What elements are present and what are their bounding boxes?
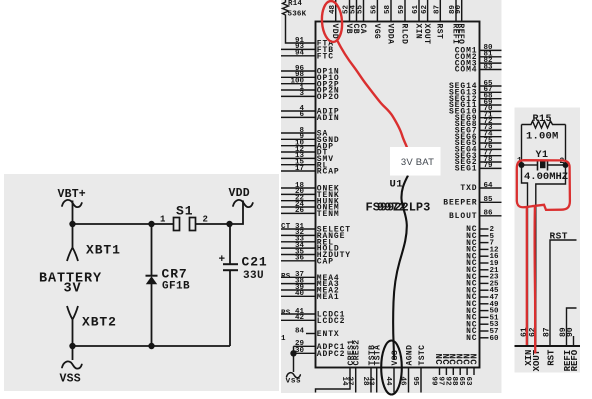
svg-text:VDDA: VDDA [385, 24, 394, 45]
wire from R14 to pin 91 FTA [286, 17, 316, 44]
pin 35 HZDUTY [281, 248, 351, 260]
pin 87 RST (top edge) [434, 0, 444, 39]
svg-text:XOUT: XOUT [532, 349, 542, 371]
power port VBT+ [58, 188, 86, 207]
pin 50 NC (right edge) [466, 307, 499, 316]
pin 84 ENTX [295, 327, 340, 339]
svg-text:3V: 3V [64, 282, 82, 297]
center schematic fragment background [281, 0, 502, 393]
pin 14 CRES1 (bottom edge) [316, 339, 357, 392]
pin 53 NC (right edge) [466, 320, 499, 329]
pin 88 NC (bottom edge) [450, 354, 463, 387]
crystal schematic fragment background [515, 108, 581, 373]
svg-text:59: 59 [398, 4, 406, 14]
svg-text:VSS: VSS [60, 373, 81, 386]
svg-text:ADIN: ADIN [317, 114, 340, 123]
pin 70 SEG10 (right edge) [449, 105, 502, 116]
RST net label and wire [550, 231, 577, 346]
svg-text:26: 26 [295, 207, 305, 215]
pin 33 REL [281, 236, 334, 248]
power port VSS [60, 346, 82, 386]
svg-text:SEG1: SEG1 [455, 165, 478, 174]
svg-text:RST: RST [546, 349, 556, 366]
svg-text:REFO: REFO [570, 349, 580, 371]
power port VDD [229, 187, 253, 224]
pin 58 VDDA (top edge) [384, 0, 394, 44]
pin 43 TSTA (bottom edge) [367, 345, 383, 393]
svg-text:48: 48 [329, 4, 337, 14]
resistor R14 536K (partially cut at top) [283, 0, 307, 19]
svg-text:61: 61 [412, 4, 420, 14]
resistor R15 1.00M [522, 114, 566, 143]
battery schematic fragment background [4, 174, 279, 391]
pin 65 NC (bottom edge) [457, 354, 470, 387]
svg-text:97: 97 [436, 377, 444, 386]
pin 56 VGG (top edge) [371, 0, 381, 39]
svg-text:R14: R14 [288, 0, 302, 8]
svg-text:88: 88 [450, 377, 458, 387]
junction node B (diode top) [148, 221, 154, 227]
svg-text:VBT+: VBT+ [58, 188, 86, 201]
pin 17 RCAP [281, 165, 340, 177]
svg-text:TXD: TXD [460, 184, 477, 193]
svg-text:XIN: XIN [413, 24, 422, 40]
pin 26 TENM [281, 207, 340, 219]
svg-text:XOUT: XOUT [422, 24, 431, 45]
pin 93 FTB [281, 43, 334, 55]
pin 75 SEG5 (right edge) [455, 137, 502, 148]
svg-text:95: 95 [411, 377, 419, 387]
svg-text:VGG: VGG [372, 24, 381, 40]
pin 80 COM1 (right edge) [455, 44, 502, 55]
pin 18 ONEK [281, 182, 340, 194]
svg-text:TSTC: TSTC [418, 345, 427, 366]
connector XBT2 [67, 306, 117, 346]
svg-text:RST: RST [435, 24, 444, 40]
svg-text:17: 17 [295, 165, 304, 173]
svg-text:U1: U1 [390, 179, 404, 191]
svg-text:6: 6 [299, 111, 304, 119]
svg-text:87: 87 [434, 5, 442, 14]
pin 52 VB (top edge) [343, 0, 353, 34]
pin 79 SEG1 (right edge) [455, 162, 502, 173]
pin 83 COM4 (right edge) [455, 63, 502, 74]
pin 92 NC (bottom edge) [443, 354, 456, 387]
junction node E [148, 343, 154, 349]
bottom wire VSS rail [73, 345, 231, 347]
svg-text:LCDC2: LCDC2 [317, 317, 346, 326]
pin 87 RST (right fragment) [543, 327, 557, 366]
pin 100 OP2P [281, 78, 340, 90]
svg-text:90: 90 [566, 327, 575, 337]
svg-text:NC: NC [466, 334, 477, 343]
pin 65 SEG14 (right edge) [449, 80, 502, 91]
svg-text:1: 1 [160, 215, 166, 225]
pin 49 NC (right edge) [466, 300, 499, 309]
pin 12 DT [281, 146, 328, 158]
svg-text:65: 65 [457, 377, 465, 387]
svg-text:55: 55 [357, 4, 365, 14]
pin 5 NC (right edge) [466, 232, 494, 241]
pin 82 COM3 (right edge) [455, 57, 502, 68]
pin 24 ONEM [281, 201, 340, 213]
svg-text:S1: S1 [176, 204, 193, 219]
svg-text:VSS: VSS [391, 350, 400, 366]
pin 77 SEG3 (right edge) [455, 150, 502, 161]
svg-text:56: 56 [371, 4, 379, 14]
svg-text:VDD: VDD [330, 24, 339, 40]
pin 28 TSTB (bottom edge) [361, 345, 377, 393]
svg-text:RLCD: RLCD [399, 24, 408, 45]
pin 67 SEG13 (right edge) [449, 86, 502, 97]
diode CR7 GF1B [146, 224, 191, 346]
svg-text:99: 99 [430, 377, 438, 387]
svg-text:33U: 33U [243, 270, 264, 282]
svg-text:C21: C21 [242, 255, 268, 270]
pin 68 SEG12 (right edge) [449, 93, 502, 104]
red wire trace XOUT [533, 207, 536, 354]
svg-text:CRES2: CRES2 [353, 339, 362, 365]
pin 98 OP1O [281, 71, 340, 83]
svg-text:44: 44 [384, 377, 392, 387]
pin 25 NC (right edge) [466, 280, 499, 289]
svg-text:43: 43 [367, 377, 375, 387]
svg-text:64: 64 [484, 182, 494, 190]
svg-text:3V BAT: 3V BAT [401, 157, 434, 168]
wire crystal pin1 to XIN [522, 165, 528, 346]
pin 23 NC (right edge) [466, 273, 499, 282]
wire crystal pin2 to XOUT [536, 165, 566, 346]
pin 96 OP1N [281, 65, 340, 77]
BATTERY 3V label [39, 272, 102, 297]
svg-text:27: 27 [346, 377, 354, 386]
junction node D [69, 343, 75, 349]
svg-text:84: 84 [295, 327, 305, 335]
junction node 1 [519, 162, 525, 168]
red loop around crystal [517, 160, 570, 210]
pin 60 NC (right edge) [466, 334, 499, 343]
svg-text:REFO: REFO [456, 24, 465, 45]
junction node 2 [563, 162, 569, 168]
svg-text:85: 85 [484, 196, 494, 204]
wire R15 right leg [565, 125, 567, 166]
pin 1 OP2N [281, 84, 340, 96]
svg-text:63: 63 [464, 377, 472, 387]
pin 57 NC (right edge) [466, 327, 498, 336]
pin 91 FTA [295, 37, 334, 49]
pin 76 SEG4 (right edge) [455, 143, 502, 154]
svg-text:RS: RS [281, 273, 291, 281]
svg-text:42: 42 [295, 314, 305, 322]
pin 94 FTC [281, 50, 334, 62]
pin 42 LCDC2 [281, 314, 345, 326]
svg-text:87: 87 [543, 327, 552, 337]
svg-text:OP2O: OP2O [317, 93, 340, 102]
pin 63 NC (bottom edge) [464, 354, 477, 387]
pin 13 SMV [281, 152, 334, 164]
pin 78 SEG2 (right edge) [455, 156, 502, 167]
pin 9 SGND [281, 133, 340, 145]
svg-text:XBT2: XBT2 [82, 315, 117, 330]
svg-text:MEA1: MEA1 [317, 293, 340, 302]
red wire trace XIN [526, 208, 528, 346]
capacitor C21 33U [219, 224, 268, 346]
pin 15 RL [281, 159, 328, 171]
svg-text:60: 60 [490, 335, 500, 343]
pin 6 ADIN [281, 111, 340, 123]
pin 2 NC (right edge) [466, 225, 494, 234]
svg-text:ENTX: ENTX [317, 330, 340, 339]
svg-text:vss: vss [286, 377, 302, 386]
pin 99 NC (bottom edge) [430, 354, 443, 387]
junction on ADPC2 wire [290, 350, 296, 356]
ground vss (center fragment) [286, 373, 302, 386]
svg-text:BEEPER: BEEPER [443, 199, 477, 208]
pin 72 SEG8 (right edge) [455, 118, 502, 129]
red ellipse around pin 48 VDD [321, 0, 344, 42]
pin 97 NC (bottom edge) [436, 354, 449, 386]
IC top edge (right fragment) [515, 345, 581, 347]
IC U1 body outline [316, 22, 480, 368]
pin 12 NC (right edge) [466, 246, 499, 255]
svg-text:3: 3 [299, 90, 304, 98]
svg-text:536K: 536K [288, 11, 307, 19]
svg-text:RS: RS [281, 310, 291, 318]
svg-text:AGND: AGND [406, 345, 415, 366]
pin 62 XOUT (right fragment) [528, 327, 542, 371]
pin 62 XOUT (top edge) [421, 0, 431, 44]
pin 38 MEA3 [281, 277, 340, 289]
wire node A to switch [73, 223, 174, 225]
svg-text:4.00MHZ: 4.00MHZ [524, 171, 568, 183]
pin 32 RANGE [281, 229, 345, 241]
pin 39 MEA2 [281, 284, 340, 296]
pin 10 ADP [281, 140, 334, 152]
pin 90 REFO (top edge) [455, 0, 465, 44]
svg-text:BLOUT: BLOUT [449, 212, 478, 221]
wire switch to VDD node [196, 223, 231, 225]
REFI bracket wire [567, 308, 577, 346]
pin 16 NC (right edge) [466, 252, 499, 261]
pin 7 NC (right edge) [466, 239, 494, 248]
svg-text:79: 79 [484, 162, 494, 170]
svg-text:VDD: VDD [229, 187, 250, 200]
pin 21 NC (right edge) [466, 266, 499, 275]
pin 90 REFO (right fragment) [566, 327, 580, 371]
svg-text:92: 92 [443, 377, 451, 387]
pin 36 CAP [281, 255, 334, 267]
switch S1 [160, 204, 208, 231]
svg-text:CA: CA [358, 24, 367, 34]
pin 85 BEEPER (right edge) [443, 196, 501, 207]
pin 37 MEA4 [281, 271, 340, 283]
svg-text:CR7: CR7 [162, 267, 188, 282]
black ellipse around VSS pin 44 [381, 341, 402, 395]
pin 29 ADPC1 [294, 340, 346, 352]
svg-text:62: 62 [421, 4, 429, 14]
svg-text:RCAP: RCAP [317, 168, 340, 177]
junction node A [69, 221, 75, 227]
wire ADPC1/ADPC2 common to VSS [293, 346, 295, 372]
pin 69 SEG11 (right edge) [449, 99, 502, 110]
pin 22 HUNK [281, 195, 340, 207]
pin 31 SELECT [281, 223, 351, 235]
pin 89 REFI (top edge) [449, 0, 459, 44]
pin 59 RLCD (top edge) [398, 0, 408, 44]
svg-text:36: 36 [295, 255, 305, 263]
pin 71 SEG9 (right edge) [455, 112, 502, 123]
pin 73 SEG7 (right edge) [455, 124, 502, 135]
pin 3 OP2O [281, 90, 340, 102]
pin 64 TXD (right edge) [460, 182, 501, 193]
svg-text:FTC: FTC [317, 52, 334, 61]
svg-text:CT: CT [281, 223, 291, 231]
pin 55 CA (top edge) [357, 0, 367, 34]
svg-text:2: 2 [203, 215, 208, 225]
pin 74 SEG6 (right edge) [455, 131, 502, 142]
3V BAT callout box [390, 147, 441, 176]
svg-text:1.00M: 1.00M [526, 131, 559, 143]
pin 34 HOLD [281, 242, 340, 254]
svg-text:XBT1: XBT1 [86, 243, 121, 258]
REFO stub [573, 336, 575, 346]
svg-text:83: 83 [484, 63, 494, 71]
pin 45 NC (right edge) [466, 286, 499, 295]
svg-text:COM4: COM4 [455, 66, 478, 75]
svg-text:58: 58 [384, 4, 392, 14]
pin 4 ADIP [281, 105, 340, 117]
pin 20 TENK [281, 188, 340, 200]
svg-text:94: 94 [295, 50, 305, 58]
pin 27 CRES2 (bottom edge) [346, 339, 362, 392]
svg-text:GF1B: GF1B [162, 281, 190, 293]
wire VBT+ to node [72, 201, 74, 225]
svg-text:ADPC2: ADPC2 [317, 350, 346, 359]
pin 48 VDD (top edge) [329, 0, 339, 39]
connector XBT1 [67, 224, 121, 261]
pin 47 NC (right edge) [466, 293, 498, 302]
crystal Y1 4.00MHZ [517, 150, 568, 183]
pin 46 AGND (bottom edge) [399, 345, 415, 393]
pin 51 NC (right edge) [466, 314, 499, 323]
pin 40 MEA1 [281, 290, 340, 302]
part number F59972LP3 (double-printed look) [366, 201, 431, 215]
red wire annotation from VDD pin to 3V BAT [337, 40, 407, 148]
svg-text:90: 90 [455, 4, 463, 14]
svg-text:NC: NC [467, 354, 477, 366]
pin 54 CB (top edge) [350, 0, 360, 34]
black wire annotation from 3V BAT to VSS pin [393, 176, 408, 361]
svg-text:1: 1 [281, 335, 286, 343]
pin 44 VSS (bottom edge) [384, 350, 400, 393]
junction node C [226, 221, 232, 227]
pin 61 XIN (top edge) [412, 0, 422, 39]
svg-text:TENM: TENM [317, 210, 340, 219]
pin 8 SA [281, 127, 328, 139]
svg-text:86: 86 [484, 210, 494, 218]
pin 89 REFI (right fragment) [559, 327, 573, 371]
pin 19 NC (right edge) [466, 259, 499, 268]
pin 30 ADPC2 [294, 347, 346, 359]
wire R15 left leg [521, 125, 523, 166]
svg-text:CAP: CAP [317, 257, 334, 266]
pin 86 BLOUT (right edge) [449, 210, 502, 221]
pin 81 COM2 (right edge) [455, 51, 502, 62]
pin 95 TSTC (bottom edge) [411, 345, 427, 393]
svg-text:40: 40 [295, 290, 305, 298]
pin 41 LCDC1 [281, 308, 345, 320]
pin 61 XIN (right fragment) [520, 327, 534, 366]
